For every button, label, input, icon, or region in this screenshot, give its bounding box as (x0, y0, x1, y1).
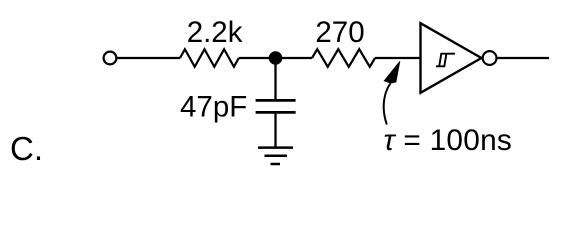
wire R1 to node (239, 57, 276, 59)
inversion bubble of U1 (483, 51, 497, 65)
svg-text:47pF: 47pF (180, 91, 247, 124)
resistor R2 270 (312, 49, 375, 67)
capacitor C1 top plate (256, 99, 296, 102)
annotation arrowhead (384, 61, 400, 83)
output wire (498, 57, 549, 59)
resistor R1 2.2k (180, 49, 239, 67)
node junction dot (269, 51, 283, 65)
annotation arrow shaft (384, 84, 391, 125)
svg-text:C.: C. (10, 130, 43, 167)
svg-text:270: 270 (315, 16, 364, 49)
capacitor C1 lead bottom (274, 112, 276, 147)
input terminal (open circle) (104, 52, 117, 65)
ground bar 1 (258, 146, 293, 149)
hysteresis symbol inside U1 (436, 54, 455, 67)
capacitor C1 bottom plate (256, 111, 296, 114)
capacitor C1 lead top (274, 58, 276, 100)
op-amp U1 schmitt trigger inverter triangle (421, 23, 482, 93)
ground bar 2 (265, 155, 288, 158)
ground bar 3 (271, 163, 281, 166)
svg-text:2.2k: 2.2k (187, 16, 243, 49)
wire input terminal to R1 (117, 57, 180, 59)
wire R2 to inverter (375, 57, 421, 59)
wire node to R2 (276, 57, 313, 59)
svg-text:τ = 100ns: τ = 100ns (384, 124, 513, 157)
